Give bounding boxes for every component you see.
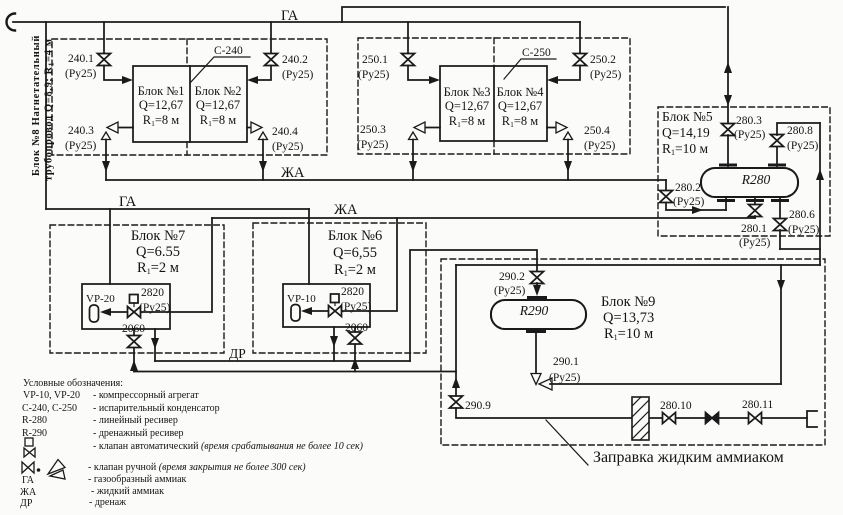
valve 290.2 (531, 272, 544, 284)
valve 280.10 (663, 413, 676, 424)
svg-text:Блок №1: Блок №1 (138, 84, 185, 98)
wire refuel riser (455, 265, 457, 396)
arrow down into R290 (533, 285, 541, 296)
leader C-240 (190, 57, 250, 83)
dashed divider C-240 group (186, 39, 188, 155)
svg-text:- испарительный конденсатор: - испарительный конденсатор (93, 403, 220, 414)
leader C-250 (504, 59, 556, 79)
wire drain collecting line A (155, 360, 410, 362)
svg-text:2820: 2820 (341, 286, 364, 298)
wire valve 2060 block6 to drain line B (354, 345, 356, 372)
arrow down 240.3 (102, 161, 110, 172)
svg-text:Блок №8 Нагнетательный: Блок №8 Нагнетательный (31, 35, 42, 176)
svg-text:Блок №4: Блок №4 (497, 85, 545, 99)
svg-text:(Py25): (Py25) (787, 140, 818, 152)
dashed enclosure Блок №7 (50, 225, 224, 353)
svg-text:Q=14,19: Q=14,19 (662, 125, 710, 140)
wire R280 to valve 280.8 (776, 146, 778, 168)
wire riser to valve 250.1 (407, 22, 409, 54)
arrow down block7 drain (151, 338, 159, 349)
divider block1/2 (189, 66, 191, 142)
svg-text:280.10: 280.10 (660, 400, 692, 412)
flange R280 bottom left (719, 199, 734, 202)
wire left discharge main (Блок №8) (45, 22, 47, 209)
svg-text:240.2: 240.2 (282, 54, 308, 66)
svg-text:- жидкий аммиак: - жидкий аммиак (91, 486, 164, 497)
tank R290 (491, 300, 586, 329)
flange R290 top (529, 296, 546, 299)
valve 2820 (block6) actuator (331, 294, 340, 303)
valve 250.1 (402, 54, 415, 66)
valve 280.3 (722, 124, 735, 136)
angle valve 290.1 (531, 374, 552, 391)
svg-text:280.2: 280.2 (675, 182, 701, 194)
flange R280 bottom middle (748, 199, 763, 202)
wire R280 gas riser (727, 7, 729, 124)
svg-text:240.4: 240.4 (272, 126, 298, 138)
wire ЖА header to valve 280.2 (665, 180, 667, 191)
wire valve 280.3 to R280 (727, 135, 729, 168)
wire valve 290.9 to filling line (456, 408, 807, 418)
svg-text:(Py25): (Py25) (272, 141, 303, 153)
valve 250.2 (574, 54, 587, 66)
svg-text:Блок №5: Блок №5 (662, 109, 713, 124)
valve 240.1 (98, 54, 111, 66)
svg-text:Q=12,67: Q=12,67 (498, 99, 542, 113)
svg-text:- клапан ручной (время закрыти: - клапан ручной (время закрытия не более… (88, 462, 306, 473)
wire block6 drain to line A (333, 327, 335, 361)
dashed divider C-250 group (493, 38, 495, 154)
svg-text:Q=12,67: Q=12,67 (445, 99, 489, 113)
wire R280 bottom left nozzle (725, 197, 727, 210)
svg-text:Q=6.55: Q=6.55 (136, 244, 180, 260)
svg-text:Блок №7: Блок №7 (131, 228, 185, 244)
svg-text:R1=8 м: R1=8 м (200, 113, 237, 128)
svg-text:(Py25): (Py25) (357, 139, 388, 151)
pipe end cap ГА header left (7, 14, 15, 31)
svg-text:(Py25): (Py25) (139, 302, 170, 314)
flange R280 bottom right (773, 199, 788, 202)
svg-text:(Py25): (Py25) (340, 301, 371, 313)
wire valve 2820 to compressor VP-20 (104, 311, 127, 313)
wire drain line B (134, 371, 456, 373)
arrow down block6 drain (330, 336, 338, 347)
tank R280 end arcs (701, 170, 799, 196)
legend auto valve symbol (24, 438, 35, 457)
svg-text:(Py25): (Py25) (673, 196, 704, 208)
angle valve 240.3 (102, 122, 119, 140)
svg-text:С-240, С-250: С-240, С-250 (22, 403, 77, 414)
compressor unit box VP-10 (block6) (283, 284, 370, 327)
svg-text:ГА: ГА (281, 8, 299, 24)
arrow down on R290 loop (777, 280, 785, 291)
svg-text:трубопровод Q=8,9; R1=4 м: трубопровод Q=8,9; R1=4 м (44, 38, 56, 181)
tank R290 end arcs (491, 302, 587, 328)
valve 240.2 (265, 54, 278, 66)
valve 2060 (block6) (349, 332, 362, 344)
arrow down 240.4 (259, 161, 267, 172)
svg-text:Блок №9: Блок №9 (601, 294, 655, 310)
svg-text:R1=8 м: R1=8 м (449, 114, 486, 129)
arrow into R280 feed (692, 206, 703, 214)
wire valve 280.6 down to connector (779, 230, 781, 249)
flange R280 top left (721, 164, 736, 167)
wire 240.4 to ЖА header (262, 140, 264, 181)
wire valve 280.1 to ЖА feed line (754, 216, 756, 218)
svg-text:R1=2 м: R1=2 м (137, 260, 179, 276)
svg-text:240.1: 240.1 (68, 53, 94, 65)
divider block3/4 (493, 66, 495, 141)
dashed enclosure C-250 group (358, 38, 630, 154)
svg-text:R1=10 м: R1=10 м (662, 141, 709, 157)
svg-text:250.2: 250.2 (590, 54, 616, 66)
wire 250.4 to ЖА header (567, 140, 569, 181)
svg-text:ЖА: ЖА (281, 165, 305, 181)
compressor symbol VP-10 (291, 305, 300, 322)
svg-text:Блок №3: Блок №3 (444, 85, 491, 99)
svg-text:280.6: 280.6 (789, 209, 815, 221)
valve 280.8 (771, 135, 784, 147)
svg-text:Q=12,67: Q=12,67 (196, 98, 240, 112)
svg-text:Заправка жидким аммиаком: Заправка жидким аммиаком (593, 449, 784, 466)
wall penetration hatched (632, 397, 649, 440)
valve 280.6 (774, 219, 787, 231)
svg-text:(Py25): (Py25) (734, 129, 765, 141)
leader Заправка (546, 420, 588, 465)
angle valve 240.4 (251, 122, 268, 140)
svg-text:280.11: 280.11 (742, 399, 773, 411)
svg-text:R290: R290 (519, 303, 549, 318)
svg-text:(Py25): (Py25) (65, 68, 96, 80)
wire block7 drain to line A (154, 329, 156, 361)
legend manual valve symbol (22, 460, 65, 480)
wire R280 bottom middle nozzle (754, 197, 756, 205)
valve 2820 (block7) actuator (130, 295, 139, 304)
dashed enclosure Блок №5 (658, 107, 830, 236)
wire valve 280.2 to R280 (666, 203, 726, 211)
arrow into VP-20 (100, 308, 111, 316)
svg-text:2820: 2820 (141, 287, 164, 299)
svg-text:280.8: 280.8 (787, 125, 813, 137)
valve 2820 (block7) (133, 303, 135, 307)
wire R280 bottom right nozzle (779, 197, 781, 219)
svg-text:(Py25): (Py25) (65, 140, 96, 152)
condenser box Блок №1 / №2 (133, 66, 247, 142)
arrow up on return riser (816, 169, 824, 180)
wire ГА drop into block6 (308, 209, 310, 284)
svg-text:Q=6,55: Q=6,55 (333, 245, 377, 261)
wire block1 outlet (118, 127, 133, 129)
wire valve 250.2 to block4 inlet (555, 66, 580, 81)
svg-text:VP-10: VP-10 (287, 293, 316, 305)
wire transfer pipe to refuel riser (456, 264, 820, 266)
svg-text:(Py25): (Py25) (584, 140, 615, 152)
svg-text:- линейный ресивер: - линейный ресивер (93, 415, 178, 426)
arrow into block4 (547, 76, 558, 84)
condenser box Блок №3 / №4 (440, 66, 547, 141)
wire valve 240.1 to block1 inlet (104, 66, 125, 81)
svg-text:R1=10 м: R1=10 м (604, 326, 653, 342)
pipe end bracket (filling point) (807, 411, 817, 427)
svg-text:280.3: 280.3 (736, 115, 762, 127)
arrow into block1 (122, 76, 133, 84)
arrow into VP-10 (301, 307, 312, 315)
svg-text:- дренажный ресивер: - дренажный ресивер (93, 428, 184, 439)
svg-text:ДР: ДР (229, 346, 246, 361)
svg-text:(Py25): (Py25) (282, 69, 313, 81)
wire valve 290.2 to R290 (536, 283, 538, 288)
wire ЖА drop to block6 valve 2820 (342, 218, 397, 311)
svg-text:С-240: С-240 (214, 45, 243, 57)
arrow down 250.3 (409, 161, 417, 172)
flange R280 top right (770, 164, 785, 167)
flange R290 bottom (528, 330, 545, 333)
svg-text:- компрессорный агрегат: - компрессорный агрегат (93, 390, 199, 401)
wire 250.3 to ЖА header (412, 140, 414, 181)
svg-text:250.4: 250.4 (584, 125, 610, 137)
tank R280 (701, 168, 798, 197)
valve 290.9 (450, 396, 463, 408)
valve 2060 (block7) (128, 336, 141, 348)
svg-text:(Py25): (Py25) (549, 372, 580, 384)
svg-text:R1=2 м: R1=2 м (334, 262, 376, 278)
valve middle (filling line) (706, 413, 719, 424)
wire block4 outlet (547, 127, 556, 129)
compressor symbol VP-20 (90, 305, 99, 322)
svg-text:Q=12,67: Q=12,67 (139, 98, 183, 112)
arrow down on gas riser (724, 95, 732, 106)
angle valve 250.3 (409, 122, 426, 140)
arrow up into 2060 block6 (351, 358, 359, 369)
wire block7 to valve 2060 (133, 329, 135, 335)
angle valve 250.4 (556, 122, 573, 140)
wire valve 2060 block7 to drain line B (133, 348, 135, 372)
svg-text:R1=8 м: R1=8 м (502, 114, 539, 129)
svg-text:290.1: 290.1 (553, 356, 579, 368)
wire block3 outlet (425, 127, 440, 129)
svg-text:ГА: ГА (119, 194, 137, 210)
svg-text:250.3: 250.3 (360, 124, 386, 136)
wire block6 to valve 2060 (354, 327, 356, 332)
svg-text:(Py25): (Py25) (788, 224, 819, 236)
wire drain riser to R290 (410, 250, 537, 361)
svg-text:VP-10, VP-20: VP-10, VP-20 (23, 390, 80, 401)
svg-text:- клапан автоматический (время: - клапан автоматический (время срабатыва… (93, 441, 364, 452)
valve 280.11 (749, 413, 762, 424)
arrow up on refuel riser (452, 377, 460, 388)
svg-text:ДР: ДР (20, 498, 33, 509)
svg-text:2060: 2060 (345, 322, 368, 334)
valve 2820 (block6) (334, 303, 336, 306)
wire 290.1 to R290 loop (550, 383, 781, 385)
wire ЖА condensate header (106, 179, 666, 181)
wire block2 outlet (247, 127, 251, 129)
wire valve 2820 to compressor VP-10 (305, 310, 328, 312)
svg-text:R1=8 м: R1=8 м (143, 113, 180, 128)
svg-text:250.1: 250.1 (362, 54, 388, 66)
svg-text:2060: 2060 (122, 323, 145, 335)
svg-text:290.9: 290.9 (465, 400, 491, 412)
svg-text:ЖА: ЖА (20, 487, 37, 498)
valve 280.2 (660, 191, 673, 203)
arrow into block2 (247, 76, 258, 84)
wire riser to valve 240.2 (270, 22, 272, 54)
svg-text:VP-20: VP-20 (86, 293, 115, 305)
svg-text:290.2: 290.2 (499, 271, 525, 283)
wire ГА drop into block7 (109, 209, 111, 284)
svg-text:Q=13,73: Q=13,73 (603, 310, 654, 326)
wire riser to valve 240.1 (103, 22, 105, 54)
dashed enclosure Блок №9 / refuelling (441, 259, 825, 445)
wire riser to valve 250.2 (579, 22, 581, 54)
valve 280.1 (749, 205, 762, 217)
wire valve 280.8 elbow to return riser (777, 123, 820, 135)
svg-text:ГА: ГА (22, 475, 35, 486)
wire ГА line to compressor blocks (46, 208, 309, 210)
wire 280.6 connector (780, 248, 820, 250)
wire drop to R290 return loop (780, 265, 782, 384)
wire 240.3 to ЖА header (105, 140, 107, 181)
arrow down 250.4 (564, 161, 572, 172)
svg-text:Блок №6: Блок №6 (328, 228, 382, 244)
arrow up into 2060 block7 (130, 360, 138, 371)
svg-text:ЖА: ЖА (334, 202, 358, 218)
svg-text:(Py25): (Py25) (739, 237, 770, 249)
svg-text:(Py25): (Py25) (590, 69, 621, 81)
compressor unit box VP-20 (block7) (82, 284, 170, 329)
wire valve 250.1 to block3 inlet (408, 66, 432, 81)
svg-text:- дренаж: - дренаж (89, 497, 126, 508)
svg-text:(Py25): (Py25) (494, 285, 525, 297)
svg-text:R-280: R-280 (22, 415, 47, 426)
svg-text:С-250: С-250 (522, 47, 551, 59)
svg-text:Блок №2: Блок №2 (195, 84, 242, 98)
wire ЖА drop to block7 valve 2820 (141, 218, 212, 312)
wire R290 bottom to angle valve 290.1 (535, 329, 537, 373)
dashed enclosure C-240 group (52, 39, 327, 155)
wire ГА top header (13, 21, 580, 23)
wire return riser right (819, 123, 821, 265)
wire valve 240.2 to block2 inlet (255, 66, 271, 81)
svg-text:- газообразный аммиак: - газообразный аммиак (88, 474, 187, 485)
svg-text:R280: R280 (741, 172, 771, 187)
arrow up on gas riser (724, 62, 732, 73)
wire ЖА liquid feed line (212, 217, 755, 219)
svg-text:Условные обозначения:: Условные обозначения: (23, 378, 123, 389)
arrow into block3 (429, 76, 440, 84)
dashed enclosure Блок №6 (253, 223, 426, 353)
wire ГА bypass line to R280 riser (342, 7, 725, 22)
svg-text:(Py25): (Py25) (358, 69, 389, 81)
svg-text:240.3: 240.3 (68, 125, 94, 137)
svg-text:280.1: 280.1 (741, 223, 767, 235)
